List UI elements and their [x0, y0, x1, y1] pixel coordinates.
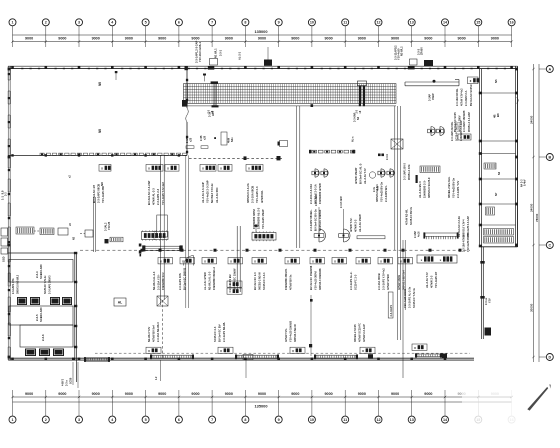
- svg-text:7: 7: [211, 21, 213, 25]
- svg-text:YJV-1KV-4x95+1: YJV-1KV-4x95+1: [198, 41, 202, 62]
- svg-text:9000: 9000: [225, 37, 233, 41]
- svg-text:BV-3x4-SC SC25-F: BV-3x4-SC SC25-F: [470, 84, 473, 106]
- cluster A9 x=450: [447, 177, 460, 198]
- building top wall: [8, 66, 518, 68]
- under-rack texts x=210: [209, 111, 215, 117]
- svg-text:380V/3.0 YJV-4: 380V/3.0 YJV-4: [463, 219, 466, 237]
- right room hatch box y=207: [486, 207, 495, 215]
- axis bubble top 8: [242, 19, 249, 47]
- switchgear row 2: [25, 349, 64, 357]
- svg-text:YJV-4x25 2-3: YJV-4x25 2-3: [255, 186, 259, 203]
- svg-text:1: 1: [11, 418, 13, 422]
- svg-text:SC50: SC50: [70, 377, 73, 384]
- interior wall x=187 (left hall east wall): [185, 66, 189, 155]
- svg-text:0.4kV: 0.4kV: [524, 179, 527, 186]
- AL box x=114 y=298: [114, 298, 126, 306]
- cluster A1 labels x=95: [92, 165, 111, 204]
- svg-text:9000: 9000: [258, 37, 266, 41]
- svg-text:9000: 9000: [358, 37, 366, 41]
- svg-text:380V/3.0 SC25-F: 380V/3.0 SC25-F: [427, 177, 431, 198]
- svg-text:2-3-2AP2 08CB1-: 2-3-2AP2 08CB1-: [309, 209, 313, 231]
- svg-text:2-3-9: 2-3-9: [386, 154, 389, 160]
- right chain dimension line: [532, 64, 546, 362]
- svg-text:N8: N8: [100, 182, 104, 186]
- under-rack X-box x=391: [386, 139, 403, 160]
- svg-text:4-BYJ: 4-BYJ: [62, 378, 65, 386]
- flag x=280 y=142: [278, 141, 288, 147]
- svg-text:9: 9: [278, 21, 280, 25]
- building bottom wall: [8, 358, 474, 360]
- svg-text:AL-2-3x YJV: AL-2-3x YJV: [363, 168, 367, 184]
- cable riser bundle x=396: [395, 106, 405, 378]
- lower right wall texts: [485, 297, 492, 305]
- svg-text:4/7kW YJV-4x2: 4/7kW YJV-4x2: [461, 88, 464, 106]
- row B right edge texts x=466: [463, 232, 471, 252]
- svg-text:9000: 9000: [25, 392, 33, 396]
- svg-text:4/7kW 15kW/: 4/7kW 15kW/: [354, 167, 358, 184]
- right room label y=190: [494, 192, 498, 196]
- svg-text:N2x: N2x: [231, 137, 234, 142]
- svg-text:4/7kW SC25-FC: 4/7kW SC25-FC: [358, 323, 362, 342]
- svg-text:YJV-4x25 380: YJV-4x25 380: [101, 185, 105, 203]
- axis bubble bottom 8: [242, 390, 249, 423]
- svg-text:N1 WL1: N1 WL1: [214, 48, 218, 58]
- svg-text:9000: 9000: [491, 37, 499, 41]
- svg-text:3: 3: [78, 418, 80, 422]
- svg-text:4/7kW 2-3-1AP: 4/7kW 2-3-1AP: [362, 324, 366, 342]
- svg-text:4/7kW BV-3x4: 4/7kW BV-3x4: [152, 325, 156, 342]
- svg-text:x: x: [148, 167, 150, 171]
- top chain dimension line: [11, 40, 513, 42]
- svg-text:135000: 135000: [255, 29, 268, 34]
- building left wall: [8, 66, 10, 360]
- svg-text:380V/3.0 2-3-2A: 380V/3.0 2-3-2A: [246, 183, 250, 203]
- mid cluster texts x=352 y=210: [349, 214, 362, 232]
- vertical label box on riser x=389: [388, 292, 393, 318]
- svg-text:15kW/380 SC2: 15kW/380 SC2: [161, 272, 165, 290]
- axis bubble top 15: [475, 19, 482, 47]
- svg-text:5: 5: [145, 418, 147, 422]
- cluster A3 label box x=200: [200, 165, 232, 204]
- svg-text:4/7kW 15kW: 4/7kW 15kW: [397, 274, 401, 290]
- svg-text:24000: 24000: [530, 203, 534, 212]
- svg-text:x: x: [148, 349, 150, 353]
- axis bubble bottom 5: [142, 390, 149, 423]
- axis bubble bottom 4: [109, 390, 116, 423]
- svg-text:9000: 9000: [191, 392, 199, 396]
- top total dimension line: [13, 29, 512, 35]
- svg-text:BV-3x4-SC BV-3x: BV-3x4-SC BV-3x: [314, 209, 318, 231]
- svg-text:SC25-FC YJV-4x: SC25-FC YJV-4x: [412, 287, 416, 308]
- axis bubble top 9: [275, 19, 282, 47]
- rack firewall pier x=361: [356, 81, 367, 114]
- axis bubble top 12: [375, 19, 382, 47]
- svg-text:4/7kW YJV-: 4/7kW YJV-: [284, 328, 288, 342]
- rack aisle gap lines: [297, 106, 300, 248]
- svg-text:9000: 9000: [391, 392, 399, 396]
- svg-text:78000: 78000: [535, 213, 539, 222]
- svg-text:2-3-10A N2-WL: 2-3-10A N2-WL: [456, 88, 459, 106]
- svg-text:4/7kW YJV-: 4/7kW YJV-: [349, 218, 353, 232]
- svg-text:6: 6: [178, 21, 180, 25]
- left hall label N9 upper: [98, 82, 102, 86]
- panel blocks on top wall x=427: [424, 60, 433, 66]
- svg-text:x: x: [182, 259, 184, 263]
- svg-text:N7: N7: [494, 192, 498, 196]
- diagonal leader mark bottom right: [527, 384, 551, 410]
- svg-text:4/7kW 2-3: 4/7kW 2-3: [354, 219, 358, 232]
- busway chain on wall y=153: [40, 153, 187, 155]
- svg-text:SC25-FC 2-3: SC25-FC 2-3: [213, 326, 217, 342]
- svg-text:380V/3.0 N2-WL3: 380V/3.0 N2-WL3: [17, 274, 20, 294]
- svg-text:YJV-25: YJV-25: [108, 221, 111, 230]
- cluster A4 label box x=246: [246, 165, 264, 204]
- cluster A5 pumps x=312: [309, 169, 328, 204]
- svg-text:2-3-2AP2 BV-: 2-3-2AP2 BV-: [384, 185, 388, 202]
- electrical room east wall x=76: [74, 252, 77, 382]
- axis bubble right C: [546, 242, 553, 249]
- svg-text:2-3-1AP1 4/7k: 2-3-1AP1 4/7k: [178, 273, 182, 290]
- row C text columns: [147, 320, 366, 342]
- svg-text:YJV-4x25 4/7: YJV-4x25 4/7: [434, 271, 438, 288]
- transformer block 3: [20, 325, 73, 347]
- svg-text:SC25-FC BV-3x: SC25-FC BV-3x: [410, 206, 413, 225]
- axis bubble bottom 1: [9, 390, 16, 423]
- panel box on top wall x=413: [408, 59, 417, 69]
- svg-text:24000: 24000: [530, 115, 534, 124]
- svg-text:N2-WL3 AL-2-3: N2-WL3 AL-2-3: [152, 271, 156, 290]
- svg-text:9000: 9000: [324, 392, 332, 396]
- svg-text:x: x: [400, 259, 402, 263]
- panel boxes x=16 y=226: [16, 227, 68, 235]
- svg-text:BV-3x4-SC 15kW/38: BV-3x4-SC 15kW/38: [309, 265, 313, 290]
- feeder crossbox x=157 y=296: [157, 296, 168, 306]
- svg-text:9: 9: [278, 418, 280, 422]
- pumps x=430 y=130: [428, 120, 464, 141]
- svg-text:BV-3x4-SC 2-3-2AP: BV-3x4-SC 2-3-2AP: [147, 180, 151, 205]
- mid cluster texts x=312 y=205: [309, 209, 322, 231]
- cluster A8 comb x=420: [418, 166, 440, 198]
- row C busbars on bottom wall: [84, 353, 447, 362]
- below-wall leader texts x=62: [62, 362, 79, 388]
- svg-text:9000: 9000: [25, 37, 33, 41]
- svg-text:AL-2-3x 4/7kW: AL-2-3x 4/7kW: [203, 272, 207, 290]
- below-wall tick x=160: [155, 360, 160, 381]
- svg-text:ZR-BV: ZR-BV: [420, 47, 424, 55]
- bottom total dimension line: [13, 402, 512, 408]
- right room label top: [494, 79, 498, 83]
- svg-text:2-3-1: 2-3-1: [219, 49, 223, 56]
- panel blocks on top wall x=266: [264, 47, 272, 66]
- svg-text:2: 2: [45, 418, 47, 422]
- svg-text:4/7kW N2-: 4/7kW N2-: [260, 190, 264, 203]
- row B label boxes: [158, 258, 413, 264]
- svg-text:x: x: [202, 167, 204, 171]
- svg-text:15kW/380 380V/: 15kW/380 380V/: [252, 209, 256, 229]
- svg-text:08CB1-2 2-3-2AP: 08CB1-2 2-3-2AP: [468, 112, 471, 132]
- svg-text:8: 8: [244, 21, 246, 25]
- axis bubble right A: [546, 66, 553, 73]
- cluster A10 right strip x=458: [454, 77, 479, 132]
- svg-text:9000: 9000: [258, 392, 266, 396]
- lower east wall: [480, 247, 491, 339]
- svg-text:11: 11: [343, 418, 347, 422]
- right strip texts y=210: [458, 216, 470, 237]
- cluster A2 label box x=146: [146, 165, 179, 206]
- svg-text:380V/3.0 2-3-1: 380V/3.0 2-3-1: [375, 184, 379, 202]
- svg-text:C: C: [548, 243, 551, 247]
- svg-text:BV-3x4-SC 2-3: BV-3x4-SC 2-3: [253, 272, 257, 290]
- axis bubble bottom 10: [308, 390, 315, 423]
- svg-text:2-3-8 4kW: 2-3-8 4kW: [340, 196, 343, 208]
- right rooms west wall x=480: [479, 69, 482, 248]
- svg-text:AL-x: AL-x: [352, 136, 355, 142]
- svg-text:9000: 9000: [58, 392, 66, 396]
- svg-text:x: x: [460, 135, 462, 139]
- svg-text:5: 5: [145, 21, 147, 25]
- svg-text:2-3-1AP1 AL-2-: 2-3-1AP1 AL-2-: [349, 272, 353, 290]
- svg-text:BV-3x4-SC 380V/3: BV-3x4-SC 380V/3: [183, 267, 187, 290]
- svg-text:BV-3x4-SC 4/7: BV-3x4-SC 4/7: [92, 184, 96, 203]
- svg-text:380V/3.0 BV-3x4: 380V/3.0 BV-3x4: [402, 270, 406, 290]
- svg-text:x: x: [292, 349, 294, 353]
- wall columns left right: [8, 68, 518, 359]
- svg-text:AL-2-3x 15kW: AL-2-3x 15kW: [358, 214, 362, 232]
- cluster A6 x=357: [354, 163, 379, 192]
- svg-text:4/7kW AL-2-3: 4/7kW AL-2-3: [152, 188, 156, 205]
- svg-text:08CB1-2 SC25: 08CB1-2 SC25: [353, 324, 357, 342]
- svg-text:2-3-10A N2-WL3: 2-3-10A N2-WL3: [156, 322, 160, 342]
- svg-text:AL-2-3x YJV: AL-2-3x YJV: [425, 272, 429, 288]
- svg-text:x: x: [414, 346, 416, 350]
- svg-text:x: x: [362, 349, 364, 353]
- panel box on top wall x=213: [208, 59, 218, 70]
- row C drop line x=311: [309, 295, 313, 356]
- svg-text:4x16: 4x16: [417, 231, 420, 237]
- svg-text:N3 WL2: N3 WL2: [400, 46, 404, 56]
- row C label boxes: [146, 347, 375, 353]
- bottom-right entry detail: [243, 355, 253, 360]
- row B text columns: [152, 265, 406, 290]
- axis bubble bottom 9: [275, 390, 282, 423]
- svg-text:2-3-2AP2 2-3-: 2-3-2AP2 2-3-: [465, 90, 468, 106]
- scan fade bottom right: [462, 386, 520, 428]
- axis bubble top 14: [442, 19, 449, 47]
- mid label box x=417 y=255 (wide dist box row): [417, 255, 457, 263]
- riser label texts above wall: [195, 41, 424, 63]
- svg-text:10: 10: [310, 21, 314, 25]
- transformer block 1: [9, 260, 73, 283]
- svg-text:x: x: [229, 290, 231, 294]
- svg-text:9000: 9000: [58, 37, 66, 41]
- svg-text:x: x: [230, 259, 232, 263]
- axis bubble top 13: [408, 19, 415, 47]
- svg-text:2-3-1AP1 4/7k: 2-3-1AP1 4/7k: [12, 278, 15, 294]
- svg-text:15kW/380 380V/3.: 15kW/380 380V/3.: [284, 268, 288, 290]
- svg-text:9000: 9000: [125, 392, 133, 396]
- axis bubble top 4: [109, 19, 116, 47]
- svg-text:4/7kW BV-3x: 4/7kW BV-3x: [289, 274, 293, 290]
- svg-text:SCB10-630: SCB10-630: [39, 307, 43, 322]
- axis bubble top 6: [175, 19, 182, 47]
- svg-text:2-3-10A 08CB: 2-3-10A 08CB: [251, 186, 255, 203]
- svg-text:BV-3x4-SC BV-: BV-3x4-SC BV-: [218, 324, 222, 342]
- axis bubble top 2: [42, 19, 49, 47]
- svg-text:YJV-4x25 BV-3x: YJV-4x25 BV-3x: [452, 177, 456, 198]
- row B comb busbar x=425: [414, 231, 459, 240]
- right dimension labels: [530, 115, 540, 312]
- svg-text:SC25-FC 2-3-1: SC25-FC 2-3-1: [262, 272, 266, 290]
- left hall label storeroom: [100, 182, 104, 186]
- rack mid pier x=215: [203, 74, 219, 114]
- row B left riser x=94: [94, 197, 124, 252]
- small boxes outside left wall: [1, 228, 8, 262]
- top wall window mullions: [21, 68, 506, 69]
- svg-text:4/7kW N2-WL: 4/7kW N2-WL: [406, 209, 409, 225]
- svg-text:9000: 9000: [158, 392, 166, 396]
- svg-text:2-3-1AP1 YJV-4x2: 2-3-1AP1 YJV-4x2: [382, 268, 386, 290]
- cluster A7 pumps x=378: [375, 169, 394, 202]
- left hall flag x=116: [115, 71, 118, 80]
- wall columns top: [11, 66, 513, 69]
- svg-text:1: 1: [11, 21, 13, 25]
- right room door notch: [517, 98, 519, 104]
- mid texts x=428 y=268: [425, 271, 438, 288]
- svg-text:YJV-4x25 2-3-1AP: YJV-4x25 2-3-1AP: [467, 216, 470, 237]
- svg-text:9000: 9000: [225, 392, 233, 396]
- svg-text:9000: 9000: [457, 37, 465, 41]
- left wall windows: [8, 73, 11, 347]
- svg-text:YJV: YJV: [489, 298, 492, 303]
- svg-text:2: 2: [45, 21, 47, 25]
- expansion joint line below wall x=187: [186, 155, 189, 308]
- door header bracket top right hall: [405, 80, 459, 86]
- bottom chain dimension line: [11, 396, 513, 398]
- svg-text:N9: N9: [98, 82, 102, 86]
- svg-text:x: x: [312, 259, 314, 263]
- svg-text:9000: 9000: [424, 37, 432, 41]
- axis bubble bottom 16: [508, 390, 515, 423]
- svg-text:D: D: [548, 355, 551, 359]
- svg-text:2-3-10A YJV-: 2-3-10A YJV-: [157, 274, 161, 290]
- row B MCC panel x=141: [142, 230, 169, 240]
- axis bubble bottom 13: [408, 390, 415, 423]
- svg-text:135000: 135000: [255, 403, 268, 408]
- svg-text:9000: 9000: [191, 37, 199, 41]
- svg-text:AL-2-3x 08C: AL-2-3x 08C: [215, 187, 219, 203]
- rack bottom rail: [184, 104, 397, 107]
- svg-text:AP2: AP2: [212, 111, 215, 116]
- axis bubble bottom 3: [76, 390, 83, 423]
- right room panel row y=229: [484, 229, 514, 244]
- axis bubble top 16: [508, 19, 515, 47]
- mid cluster texts x=255 y=207: [252, 207, 265, 229]
- svg-text:B: B: [548, 155, 551, 159]
- left wall annotation: [0, 190, 7, 200]
- texts right of riser row A: [404, 162, 418, 225]
- svg-text:15kW/380 AL-2-3: 15kW/380 AL-2-3: [257, 207, 261, 229]
- svg-text:GGD: GGD: [2, 256, 5, 262]
- svg-text:9000: 9000: [291, 37, 299, 41]
- svg-text:AL-2-3x BV-3: AL-2-3x BV-3: [418, 181, 422, 198]
- under-rack symbol row x=186: [186, 132, 234, 148]
- texts x=429 y=92: [429, 93, 435, 101]
- svg-text:BV-3x4-SC 2-3-2A: BV-3x4-SC 2-3-2A: [458, 216, 461, 237]
- row B pump symbols: [314, 194, 350, 242]
- axis bubble right B: [546, 154, 553, 161]
- svg-text:2-3-x: 2-3-x: [66, 380, 69, 386]
- svg-text:x: x: [287, 259, 289, 263]
- svg-text:9000: 9000: [324, 37, 332, 41]
- svg-text:4/7kW 2-3: 4/7kW 2-3: [430, 275, 434, 288]
- svg-text:YJV-4x25 15kW/3: YJV-4x25 15kW/3: [289, 320, 293, 342]
- svg-text:9000: 9000: [424, 392, 432, 396]
- axis bubble bottom 12: [375, 390, 382, 423]
- svg-text:15kW/380 4/7kW: 15kW/380 4/7kW: [318, 183, 322, 204]
- svg-text:13: 13: [410, 418, 414, 422]
- svg-text:2-3-2AP2 15kW/38: 2-3-2AP2 15kW/38: [463, 110, 466, 132]
- svg-text:2-3-7 4kW: 2-3-7 4kW: [315, 194, 318, 206]
- below-wall tick x=246: [245, 360, 247, 378]
- svg-text:x25: x25: [189, 137, 192, 142]
- svg-text:9000: 9000: [358, 392, 366, 396]
- svg-text:x20: x20: [203, 135, 206, 140]
- svg-text:2-3-6: 2-3-6: [41, 334, 45, 341]
- svg-text:AL: AL: [118, 301, 123, 305]
- svg-text:YJV-4x25 15kW: YJV-4x25 15kW: [261, 209, 265, 229]
- axis bubble bottom 14: [442, 390, 449, 423]
- svg-text:16: 16: [510, 21, 514, 25]
- svg-text:x: x: [254, 259, 256, 263]
- row B busbar x=143: [139, 244, 183, 257]
- svg-text:8: 8: [244, 418, 246, 422]
- axis bubble bottom 2: [42, 390, 49, 423]
- svg-text:x: x: [248, 167, 250, 171]
- svg-text:x: x: [167, 167, 169, 171]
- svg-text:15: 15: [476, 21, 480, 25]
- svg-text:BV-3x4-SC 15kW/: BV-3x4-SC 15kW/: [233, 268, 237, 290]
- axis bubble bottom 7: [209, 390, 216, 423]
- right strip small box y=135: [458, 134, 471, 140]
- svg-text:15kW: 15kW: [432, 93, 435, 100]
- glyph pair x=378 y=156: [378, 154, 384, 157]
- svg-text:7: 7: [211, 418, 213, 422]
- row C dashed feeder y=353: [95, 352, 470, 354]
- door arc x=183 y=255: [184, 256, 194, 266]
- rack left end block: [182, 100, 188, 107]
- axis bubble top 1: [9, 19, 16, 47]
- svg-text:BV-3x4-SC AL-2-: BV-3x4-SC AL-2-: [359, 163, 363, 184]
- vertical feeder x=160: [152, 155, 167, 358]
- svg-text:9000: 9000: [391, 37, 399, 41]
- axis bubble top 10: [308, 19, 315, 47]
- svg-text:9000: 9000: [291, 392, 299, 396]
- svg-text:380V/3.0 15kW/38: 380V/3.0 15kW/38: [318, 268, 322, 290]
- right rooms partitions: [481, 93, 517, 247]
- axis bubble right D: [546, 354, 553, 361]
- svg-text:380V/3.0 N2-W: 380V/3.0 N2-W: [293, 324, 297, 342]
- svg-text:SCB10-630: SCB10-630: [39, 264, 43, 279]
- svg-text:11: 11: [343, 21, 347, 25]
- axis bubble top 7: [209, 19, 216, 47]
- svg-text:N2-WL3 YJV-4x: N2-WL3 YJV-4x: [210, 183, 214, 203]
- svg-text:x: x: [220, 349, 222, 353]
- busway chain x=312-352 y=151: [309, 150, 355, 154]
- top bay dimension labels 9000: [25, 37, 499, 41]
- svg-text:x: x: [470, 79, 472, 83]
- svg-text:AL-2-3x 2-3-1AP: AL-2-3x 2-3-1AP: [201, 182, 205, 203]
- svg-text:15kW/380 08CB1-2: 15kW/380 08CB1-2: [212, 267, 216, 290]
